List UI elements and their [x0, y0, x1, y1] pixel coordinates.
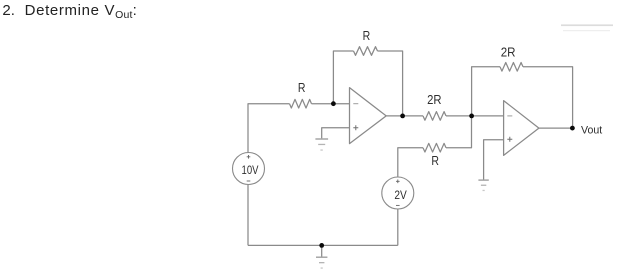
U2 plus pin mark [507, 137, 512, 142]
resistor R1 (input R of first stage) [290, 99, 312, 108]
wire: R3 to U2 minus input through node C [446, 115, 504, 117]
wire: U2 non-inverting input to ground [484, 140, 504, 180]
V1 plus mark [247, 155, 251, 159]
wire: U1 non-inverting input to ground [322, 128, 350, 139]
node E junction dot (ground rail) [319, 243, 324, 248]
voltage source V2 2V [382, 177, 414, 209]
svg-text:10V: 10V [242, 163, 259, 177]
wire: V2 bottom to ground rail [397, 209, 399, 245]
node B junction dot [400, 114, 405, 119]
wire: left branch from 10V up and right to op-amp U1 inverting input [248, 104, 290, 153]
resistor R2 (feedback R of first stage) [354, 47, 378, 56]
resistor R5 (2R feedback of second stage) [500, 63, 523, 72]
node D junction dot (Vout) [570, 126, 575, 131]
V1 minus mark [247, 180, 251, 182]
svg-text:Vout: Vout [581, 125, 602, 137]
svg-text:2R: 2R [427, 93, 441, 107]
U1 plus pin mark [353, 125, 358, 130]
wire: R4 up to node C [446, 116, 472, 148]
voltage source V1 10V [233, 153, 265, 185]
title text [0, 1, 1, 3]
op-amp U1 [350, 88, 387, 144]
svg-text:R: R [431, 154, 439, 168]
U1 minus pin mark [353, 103, 358, 105]
wire: R1 to U1 minus input through node A [312, 103, 350, 105]
U2 minus pin mark [507, 115, 512, 117]
svg-text:R: R [298, 81, 306, 95]
ground G3 (bottom rail) [321, 245, 323, 256]
wire: U2 output to node D [539, 127, 573, 129]
resistor R4 (R from 2V source) [423, 143, 446, 152]
node C junction dot [469, 114, 474, 119]
faint rule top right [561, 24, 613, 31]
wire: bottom ground rail [248, 244, 398, 246]
wire: feedback top to output node B [378, 51, 403, 116]
wire: V1 bottom to ground rail [247, 185, 249, 246]
wire: U1 output through node B to resistor 2R [386, 115, 423, 117]
node A junction dot [331, 101, 336, 106]
V2 plus mark [396, 180, 400, 184]
resistor R3 (2R between stages) [423, 112, 446, 121]
wire: feedback top to output node D [523, 67, 573, 128]
svg-text:2V: 2V [394, 188, 406, 202]
op-amp U2 [504, 101, 539, 156]
svg-text:2R: 2R [501, 46, 516, 60]
ground G1 (U1 plus input) [315, 138, 328, 150]
wire: feedback branch of U2 (up, across, down to output) [472, 67, 500, 116]
svg-text:R: R [363, 29, 371, 43]
V2 minus mark [396, 204, 400, 206]
wire: 2V source up to resistor R4 [398, 148, 423, 177]
ground G2 (U2 plus input) [478, 179, 488, 191]
wire: feedback branch of U1 (up, across, down to output) [333, 51, 353, 104]
